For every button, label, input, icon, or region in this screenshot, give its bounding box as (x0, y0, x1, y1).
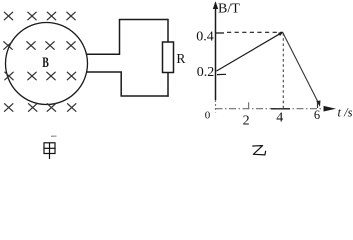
graph y-axis lower dotted part (215, 100, 217, 113)
graph x-axis arrowhead (324, 106, 337, 112)
graph x tick label 6 (314, 108, 320, 122)
field symbol x row2 col3 (46, 42, 54, 50)
resistor label R (176, 51, 185, 66)
wire top lead from coil (86, 20, 120, 55)
field symbol x row1 col1 (4, 12, 12, 20)
field symbol x row3 col3 (47, 72, 55, 80)
field symbol x row3 col1 (5, 72, 13, 80)
field symbol x row2 col2 (27, 42, 35, 50)
wire right bottom segment (167, 73, 169, 97)
field label B (42, 55, 49, 71)
wire bottom lead from coil (86, 72, 121, 97)
graph rising curve arrowhead at peak (278, 32, 283, 36)
graph x-axis (dash-dot) (216, 108, 323, 110)
field symbol x row4 col1 (5, 104, 13, 112)
wire top rail (119, 19, 168, 21)
svg-text:0: 0 (205, 110, 211, 122)
graph origin label 0 (205, 110, 211, 122)
field symbol x row4 col3 (47, 104, 55, 112)
svg-text:0.4: 0.4 (196, 29, 214, 44)
graph y-axis arrowhead (213, 1, 218, 9)
field symbol x row4 col4 (68, 104, 76, 112)
graph y tick label 0.4 (196, 29, 214, 44)
svg-text:0.2: 0.2 (197, 65, 215, 80)
svg-text:4: 4 (276, 110, 283, 125)
svg-text:6: 6 (314, 108, 320, 122)
caption jia (figure 1) drawn glyph (44, 143, 55, 159)
graph y-axis (215, 3, 217, 100)
coil L1 (circular loop in field region) (6, 23, 88, 105)
graph y tick at 0.4 (216, 32, 225, 34)
field symbol x row2 col1 (4, 42, 12, 50)
field symbol x row1 col4 (67, 12, 75, 20)
field symbol x row3 col2 (28, 72, 36, 80)
graph y-axis label B/T (218, 2, 240, 17)
svg-text:R: R (176, 51, 185, 66)
resistor R (163, 42, 174, 73)
graph x tick label 4 (276, 110, 283, 125)
graph x tick label 2 (243, 113, 250, 128)
graph x tick at 6 (317, 102, 319, 108)
graph curve rising segment 0 to 4 s (217, 32, 283, 71)
field symbol x row2 col4 (67, 42, 75, 50)
graph curve falling segment 4 to 6 s (283, 32, 319, 103)
small dash mark above caption jia (51, 135, 57, 137)
field symbol x row1 col2 (28, 12, 36, 20)
field symbol x row3 col4 (67, 72, 75, 80)
graph dashed vertical line at t=4 (282, 33, 284, 108)
wire right top segment (167, 19, 169, 43)
caption yi (figure 2) drawn glyph (253, 146, 266, 155)
graph x tick at 2 (248, 102, 250, 108)
field symbol x row1 col3 (47, 12, 55, 20)
graph x-axis label t/s (338, 106, 353, 120)
graph dashed horizontal line at B=0.4 (227, 31, 282, 33)
graph y tick label 0.2 (197, 65, 215, 80)
wire bottom rail (121, 95, 169, 97)
svg-text:B: B (42, 55, 49, 71)
svg-text:B/T: B/T (218, 2, 240, 17)
svg-text:2: 2 (243, 113, 250, 128)
graph x-axis darker segment near 4 (271, 108, 290, 110)
svg-text:t /s: t /s (338, 106, 353, 120)
graph falling curve arrowhead (316, 100, 320, 106)
graph small dash at curve start (0.2 tick) (217, 73, 226, 75)
field symbol x row4 col2 (29, 104, 37, 112)
